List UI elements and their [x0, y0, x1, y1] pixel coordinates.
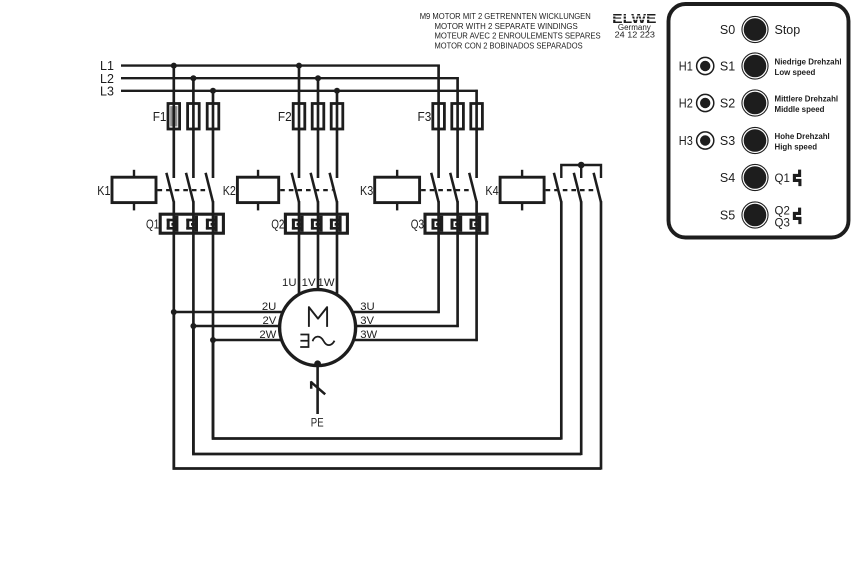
title block text: [420, 12, 602, 50]
contact K2.2: [311, 173, 318, 202]
wire K4.1 down to bus: [560, 201, 563, 439]
svg-text:High speed: High speed: [775, 142, 818, 151]
wire F1.2 drop from L2 through fuse: [192, 77, 195, 178]
wire K3.2 contact to load: [456, 201, 459, 327]
svg-text:Stop: Stop: [775, 23, 801, 37]
indicator lamp H3: [679, 132, 714, 149]
svg-text:Q3: Q3: [411, 217, 424, 231]
svg-text:Middle speed: Middle speed: [775, 105, 825, 114]
linkage dashes K2: [280, 189, 332, 191]
fuse F1.1: [168, 104, 180, 130]
PE flexible-lead mark: [311, 381, 326, 394]
svg-text:L3: L3: [100, 84, 114, 98]
wire F2.2 drop from L2 through fuse: [317, 77, 320, 178]
svg-text:MOTOR CON 2 BOBINADOS SEPARADO: MOTOR CON 2 BOBINADOS SEPARADOS: [435, 41, 584, 50]
star-point bridge bar of K4: [561, 165, 601, 178]
svg-text:Niedrige Drehzahl: Niedrige Drehzahl: [775, 58, 842, 67]
bus wire 1 (2W to K4.1): [213, 340, 561, 439]
contactor coil K2: [237, 170, 278, 211]
contactor coil K1: [112, 170, 156, 211]
contact K4.3: [594, 173, 601, 202]
wire F3.1 drop from L1 through fuse: [437, 65, 440, 179]
svg-text:3W: 3W: [360, 329, 377, 341]
bus wire 2 (2V to K4.2): [193, 326, 581, 454]
svg-text:S3: S3: [720, 134, 735, 148]
contact K3.3: [469, 173, 476, 202]
wire K1.2 contact to load: [192, 201, 195, 454]
fuse F1.3: [207, 104, 219, 130]
wire 2V: [192, 325, 281, 327]
heater element Q3.2: [451, 216, 463, 232]
junction motor-PE: [314, 360, 321, 367]
svg-text:K2: K2: [223, 184, 236, 198]
wire 2W: [212, 339, 283, 341]
wire L3: [121, 90, 478, 92]
ELWE logo: [611, 11, 658, 39]
contact K2.1: [292, 173, 299, 202]
overload relay Q1 box: [160, 214, 223, 233]
svg-text:S0: S0: [720, 23, 735, 37]
contact K4.2: [574, 173, 581, 202]
wire 3W: [352, 339, 478, 341]
svg-text:H3: H3: [679, 134, 693, 148]
svg-text:K3: K3: [360, 184, 373, 198]
pushbutton S5: [720, 201, 790, 229]
svg-text:24 12 223: 24 12 223: [615, 29, 656, 39]
junction on bridge bar: [578, 162, 585, 169]
heater element Q3.3: [470, 216, 482, 232]
svg-text:S1: S1: [720, 60, 735, 74]
junction L2-F2: [315, 75, 321, 81]
svg-text:MOTEUR AVEC 2 ENROULEMENTS SEP: MOTEUR AVEC 2 ENROULEMENTS SEPARES: [435, 32, 602, 41]
wire 3U: [351, 311, 440, 313]
wire PE: [316, 365, 319, 415]
svg-text:F3: F3: [418, 110, 432, 124]
heater element Q2.2: [311, 216, 323, 232]
contact K3.1: [431, 173, 438, 202]
svg-text:S4: S4: [720, 171, 735, 185]
motor M 3~: [280, 290, 356, 366]
svg-text:1U: 1U: [282, 277, 296, 289]
svg-text:Hohe Drehzahl: Hohe Drehzahl: [775, 132, 830, 141]
wire K3.1 contact to load: [437, 201, 440, 313]
svg-text:2U: 2U: [262, 301, 276, 313]
junction L1-F2: [296, 63, 302, 69]
overload relay Q3 box: [425, 214, 487, 233]
fuse F2.2: [312, 104, 324, 130]
overload trip glyph (Q2/Q3): [794, 208, 800, 225]
linkage dashes K4: [546, 189, 597, 191]
linkage dashes K3: [421, 189, 472, 191]
pushbutton S4: [720, 164, 790, 191]
svg-text:3U: 3U: [360, 301, 374, 313]
overload trip glyph (Q1): [794, 170, 800, 187]
svg-text:PE: PE: [311, 417, 324, 429]
wire K3.3 contact to load: [475, 201, 478, 341]
contact K1.2: [186, 173, 193, 202]
contact K1.3: [206, 173, 213, 202]
svg-text:S2: S2: [720, 97, 735, 111]
svg-text:1W: 1W: [318, 277, 335, 289]
fuse F3.1: [433, 104, 445, 130]
fuse F2.1: [293, 104, 305, 130]
svg-text:H1: H1: [679, 60, 693, 74]
junction L1-F1: [171, 63, 177, 69]
bus wire 3 (2U to K4.3): [174, 312, 601, 469]
wire K2.3 contact to load: [336, 201, 339, 297]
svg-text:Q3: Q3: [775, 217, 790, 229]
svg-text:Q1: Q1: [775, 173, 790, 185]
heater element Q1.1: [167, 216, 179, 232]
fuse F3.2: [452, 104, 464, 130]
pushbutton S0: [720, 16, 800, 43]
wire F3.2 drop from L2 through fuse: [456, 77, 459, 178]
indicator lamp H1: [679, 57, 714, 74]
overload relay Q2 box: [285, 214, 347, 233]
heater element Q2.1: [292, 216, 304, 232]
svg-text:MOTOR WITH 2 SEPARATE WINDINGS: MOTOR WITH 2 SEPARATE WINDINGS: [435, 22, 579, 31]
control panel box: [669, 4, 849, 238]
wire L2: [121, 77, 459, 79]
junction 2V: [190, 323, 196, 329]
wire K4.2 down to bus: [580, 201, 583, 455]
svg-text:Q2: Q2: [775, 205, 790, 217]
wire L1: [121, 64, 440, 66]
wire F1.3 drop from L3 through fuse: [212, 90, 215, 178]
svg-text:3V: 3V: [360, 315, 374, 327]
pushbutton S2: [720, 89, 838, 116]
wire F2.1 drop from L1 through fuse: [298, 65, 301, 179]
wire K1.1 contact to load: [172, 201, 175, 468]
junction L2-F1: [190, 75, 196, 81]
svg-text:H2: H2: [679, 97, 693, 111]
svg-text:K4: K4: [485, 184, 498, 198]
contactor coil K4: [500, 170, 544, 211]
svg-text:2W: 2W: [259, 329, 276, 341]
svg-text:Mittlere Drehzahl: Mittlere Drehzahl: [775, 95, 839, 104]
contact K1.1: [166, 173, 173, 202]
wire K2.1 contact to load: [298, 201, 301, 296]
pushbutton S1: [720, 52, 842, 79]
svg-text:K1: K1: [97, 184, 110, 198]
junction 2W: [210, 337, 216, 343]
heater element Q2.3: [330, 216, 342, 232]
indicator lamp H2: [679, 94, 714, 111]
wire F1.1 drop from L1 through fuse: [172, 65, 175, 179]
junction 2U: [171, 309, 177, 315]
fuse F2.3: [331, 104, 343, 130]
wire K4.3 down to bus: [600, 201, 603, 469]
pushbutton S3: [720, 127, 830, 154]
wire F2.3 drop from L3 through fuse: [336, 90, 339, 178]
wire 3V: [354, 325, 459, 327]
contact K2.3: [330, 173, 337, 202]
linkage dashes K1: [158, 189, 209, 191]
heater element Q1.2: [186, 216, 198, 232]
heater element Q3.1: [432, 216, 444, 232]
svg-text:Low speed: Low speed: [775, 68, 816, 77]
junction L3-F2: [334, 88, 340, 94]
wire F3.3 drop from L3 through fuse: [475, 90, 478, 178]
svg-text:Q1: Q1: [146, 217, 159, 231]
svg-text:F1: F1: [153, 110, 167, 124]
heater element Q1.3: [206, 216, 218, 232]
contact K3.2: [450, 173, 457, 202]
junction L3-F1: [210, 88, 216, 94]
svg-text:2V: 2V: [262, 315, 276, 327]
contact K4.1: [554, 173, 561, 202]
svg-text:F2: F2: [278, 110, 292, 124]
svg-text:M9 MOTOR MIT 2 GETRENNTEN WICK: M9 MOTOR MIT 2 GETRENNTEN WICKLUNGEN: [420, 12, 591, 21]
wire K1.3 contact to load: [212, 201, 215, 438]
wire 2U: [173, 311, 285, 313]
contactor coil K3: [375, 170, 420, 211]
wire K2.2 contact to load: [317, 201, 320, 292]
svg-text:S5: S5: [720, 209, 735, 223]
fuse F3.3: [471, 104, 483, 130]
fuse F1.2: [188, 104, 200, 130]
svg-text:1V: 1V: [302, 277, 316, 289]
svg-text:Q2: Q2: [271, 217, 284, 231]
